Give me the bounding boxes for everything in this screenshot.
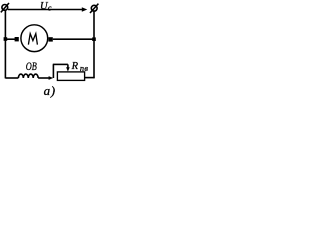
label Uc [40,1,52,12]
wire bottom left [5,77,18,79]
wiper arrow down to rheostat [67,64,69,68]
wire right vertical [93,11,95,78]
svg-text:ОВ: ОВ [26,59,37,73]
wire inductor to arrow [38,77,50,79]
terminal right [90,4,98,13]
wire armature left [5,38,15,40]
arrowhead at riser [49,76,54,80]
svg-text:пв: пв [80,64,88,73]
brush left [15,37,19,41]
wire left vertical [4,11,6,79]
wire box to right vertical [85,77,95,79]
motor M1 circle [21,25,48,52]
motor letter M [28,34,37,45]
node left junction [4,37,8,41]
node right junction [92,37,96,41]
svg-text:c: c [48,3,52,12]
terminal left [1,3,9,12]
wire riser up [52,64,54,78]
wire armature right [53,38,94,40]
brush right [48,37,52,41]
resistor Rpv box [57,72,84,81]
wire top [8,9,83,11]
svg-text:R: R [71,61,79,72]
svg-text:а): а) [44,83,56,98]
inductor OV (field winding) [18,74,38,78]
wire wiper top [53,63,68,65]
arrowhead on top wire [82,7,88,11]
label Rpv [71,61,89,73]
